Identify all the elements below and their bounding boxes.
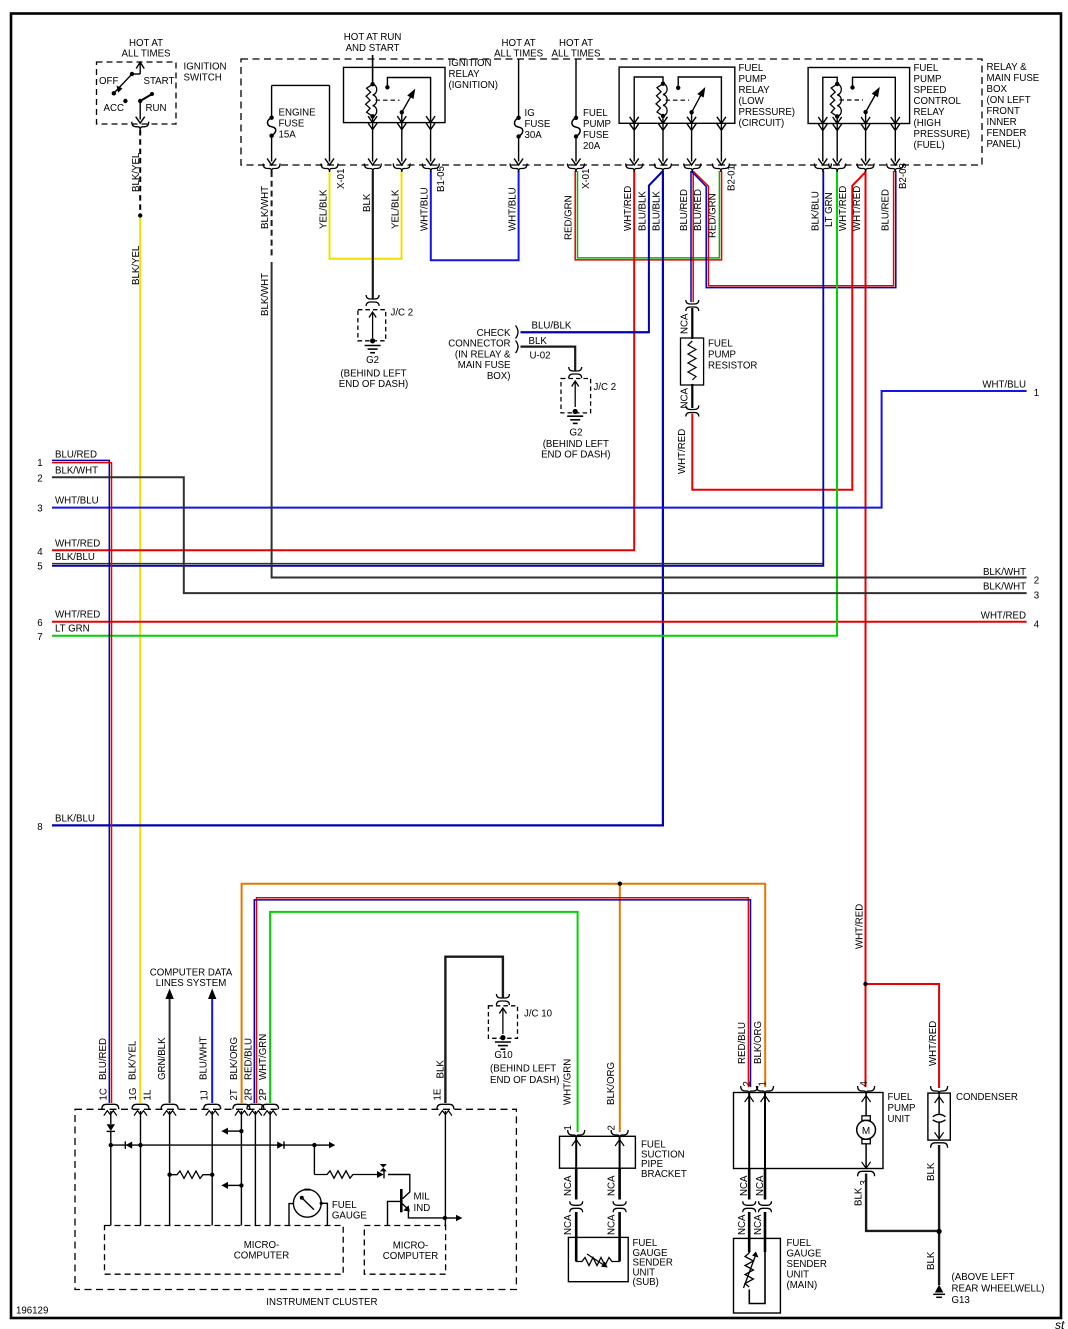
svg-text:UNIT: UNIT	[888, 1114, 911, 1125]
fuel gauge circle	[293, 1189, 321, 1217]
fuel gauge sender unit (sub) box	[568, 1237, 628, 1281]
speed control relay armature output wire	[865, 112, 867, 161]
speed control relay exit arrows	[818, 117, 827, 124]
IG fuse 30A	[518, 59, 520, 118]
speed control relay coil	[835, 82, 839, 86]
svg-text:BLK/BLU: BLK/BLU	[55, 814, 95, 825]
svg-text:RED/BLU: RED/BLU	[737, 1022, 748, 1064]
ground dot G2 (right)	[573, 409, 578, 414]
svg-text:NCA: NCA	[606, 1175, 617, 1196]
svg-text:WHT/BLU: WHT/BLU	[508, 187, 519, 231]
wire RED/GRN fuel pump fuse to fuel pump relay (green of pair)	[578, 171, 720, 258]
wire BLK/WHT engine fuse solid segment to right row 2	[272, 262, 1027, 578]
svg-text:4: 4	[859, 1081, 870, 1087]
svg-text:BLU/WHT: BLU/WHT	[199, 1036, 210, 1080]
ground symbol G2 (right)	[567, 415, 583, 417]
svg-text:(BEHIND LEFT: (BEHIND LEFT	[543, 439, 609, 450]
diode on 1C line	[107, 1124, 115, 1131]
wires NCA to sender main	[748, 1212, 751, 1252]
ground symbol G10	[495, 1041, 511, 1043]
wire BLU/RED left row 1 to cluster 1C (red of pair)	[52, 463, 112, 1103]
svg-text:1: 1	[758, 1081, 769, 1086]
svg-text:PRESSURE): PRESSURE)	[914, 129, 971, 140]
speed control relay dashed actuation link	[840, 99, 864, 101]
wire BLU/WHT computer data line to cluster 1J	[211, 998, 213, 1103]
check connector terminal symbols	[516, 326, 519, 339]
svg-text:CONNECTOR: CONNECTOR	[448, 339, 510, 350]
ignition relay armature output wire	[401, 112, 403, 161]
ignition relay dashed actuation link	[376, 99, 400, 101]
svg-text:BLU/BLK: BLU/BLK	[652, 191, 663, 231]
fuel gauge sender unit (main) box	[734, 1238, 781, 1313]
wire RED/BLU cluster 2R to fuel pump unit pin2 (red of pair)	[257, 898, 749, 1103]
svg-text:INSTRUMENT CLUSTER: INSTRUMENT CLUSTER	[266, 1297, 377, 1308]
svg-text:(MAIN): (MAIN)	[787, 1280, 818, 1291]
svg-text:ACC: ACC	[104, 103, 124, 114]
svg-text:NCA: NCA	[753, 1214, 764, 1235]
svg-text:7: 7	[37, 632, 42, 643]
svg-text:HOT AT RUN: HOT AT RUN	[344, 32, 402, 43]
fuel gauge mounting brackets	[289, 1204, 293, 1226]
svg-text:3: 3	[859, 1180, 870, 1185]
svg-text:2T: 2T	[229, 1089, 240, 1100]
fuel pump relay armature output wire	[691, 112, 693, 161]
fuel pump speed control relay box	[808, 68, 910, 124]
svg-text:BLK/WHT: BLK/WHT	[983, 582, 1026, 593]
svg-text:SENDER: SENDER	[787, 1259, 827, 1270]
fuel pump unit connector cups	[741, 1086, 758, 1095]
wire WHT/RED speed control relay pin3 to row6 / fuel pump unit pin4	[865, 171, 867, 1087]
wire BLK/YEL dashed from ignition switch	[139, 130, 141, 212]
svg-text:B2-03: B2-03	[898, 163, 909, 189]
svg-text:WHT/RED: WHT/RED	[855, 904, 866, 949]
signal direction arrow upper	[239, 1129, 243, 1133]
svg-text:BLU/RED: BLU/RED	[693, 189, 704, 231]
junction connector J/C 10 internal arrow	[502, 1008, 504, 1034]
condenser internal lead bottom	[938, 1122, 940, 1139]
wire BLK check connector to J/C 2	[521, 347, 576, 371]
svg-text:SWITCH: SWITCH	[184, 73, 222, 84]
svg-text:UNIT: UNIT	[787, 1270, 810, 1281]
svg-text:FENDER: FENDER	[987, 128, 1027, 139]
svg-text:NCA: NCA	[737, 1214, 748, 1235]
svg-text:START: START	[144, 76, 175, 87]
sender sub resistor element	[576, 1258, 619, 1266]
svg-text:NCA: NCA	[680, 388, 691, 409]
svg-text:G2: G2	[366, 355, 379, 366]
ignition switch ACC contact	[123, 99, 127, 103]
condenser internal lead top	[938, 1095, 940, 1114]
wire GRN/BLK computer data line to cluster	[169, 998, 171, 1103]
svg-text:NCA: NCA	[739, 1175, 750, 1196]
svg-text:PUMP: PUMP	[708, 350, 736, 361]
svg-text:BLK/YEL: BLK/YEL	[131, 152, 142, 192]
wire LT GRN speed control relay pin2 to left row 7	[52, 171, 837, 636]
svg-text:WHT/RED: WHT/RED	[928, 1021, 939, 1066]
svg-text:REAR WHEELWELL): REAR WHEELWELL)	[952, 1284, 1045, 1295]
svg-text:END OF DASH): END OF DASH)	[541, 450, 610, 461]
ground dot G10	[500, 1035, 505, 1040]
svg-text:(BEHIND LEFT: (BEHIND LEFT	[490, 1064, 556, 1075]
svg-text:PUMP: PUMP	[888, 1103, 916, 1114]
svg-text:PRESSURE): PRESSURE)	[739, 107, 796, 118]
fuel gauge top tick	[305, 1189, 311, 1191]
pump wires below box (NCA)	[748, 1169, 751, 1200]
wire WHT/RED fuel pump resistor to speed control relay pin3	[692, 172, 865, 490]
svg-text:FRONT: FRONT	[987, 106, 1020, 117]
wire BLU/BLK to check connector	[521, 331, 649, 333]
svg-text:LT GRN: LT GRN	[824, 192, 835, 227]
wire WHT/RED left row 6 to right row 4	[52, 621, 1027, 623]
svg-text:J/C 10: J/C 10	[524, 1009, 553, 1020]
fuel pump motor	[862, 1116, 870, 1121]
bracket NCA connectors	[570, 1201, 583, 1205]
fuel pump resistor element	[688, 341, 696, 380]
svg-text:RUN: RUN	[146, 103, 167, 114]
svg-text:G13: G13	[952, 1295, 970, 1306]
svg-text:WHT/RED: WHT/RED	[55, 610, 100, 621]
ignition switch output arrow to bottom	[139, 101, 141, 120]
svg-text:FUEL: FUEL	[332, 1200, 357, 1211]
svg-text:3: 3	[37, 504, 42, 515]
svg-text:END OF DASH): END OF DASH)	[339, 379, 408, 390]
junction connector J/C 2 (right) dashed box	[561, 379, 591, 413]
svg-text:LINES SYSTEM: LINES SYSTEM	[156, 978, 227, 989]
speed control relay coil output wire	[836, 116, 838, 161]
svg-text:(IN RELAY &: (IN RELAY &	[455, 349, 511, 360]
micro-computer box 2	[364, 1226, 445, 1275]
rail junction dot and output arrow	[312, 1143, 316, 1147]
wire BLK/ORG cluster 2T to fuel pump unit pin1 (orange bus)	[242, 884, 766, 1103]
svg-text:BLK/YEL: BLK/YEL	[128, 1040, 139, 1080]
transistor emitter	[402, 1204, 407, 1209]
svg-text:BRACKET: BRACKET	[641, 1169, 687, 1180]
svg-text:NCA: NCA	[680, 313, 691, 334]
svg-text:FUEL: FUEL	[739, 63, 764, 74]
svg-text:(IGNITION): (IGNITION)	[449, 80, 499, 91]
wire BLK/BLU speed control relay pin1 to left row 5 (blue of pair)	[52, 171, 823, 566]
svg-text:FUSE: FUSE	[525, 119, 551, 130]
fuel pump relay exit arrows	[630, 117, 639, 124]
svg-text:AND START: AND START	[346, 43, 400, 54]
svg-text:RELAY: RELAY	[449, 69, 481, 80]
svg-text:30A: 30A	[525, 130, 543, 141]
fuse box bottom connector cups	[263, 164, 280, 173]
svg-text:BLK/BLU: BLK/BLU	[55, 552, 95, 563]
svg-text:RELAY: RELAY	[914, 107, 946, 118]
MIL drive diode pair	[377, 1171, 384, 1178]
fuel pump relay armature	[689, 110, 693, 114]
svg-text:CONDENSER: CONDENSER	[956, 1092, 1018, 1103]
fuel pump relay box	[619, 67, 735, 123]
svg-text:1L: 1L	[143, 1089, 154, 1100]
svg-text:MAIN FUSE: MAIN FUSE	[458, 360, 511, 371]
transistor MIL base bar	[400, 1189, 403, 1212]
svg-text:BLU/RED: BLU/RED	[55, 450, 97, 461]
svg-text:BLK/BLU: BLK/BLU	[811, 191, 822, 231]
svg-text:BLK: BLK	[854, 1187, 865, 1206]
wire BLK/BLU speed control relay pin1 to left row 5 (black of pair)	[52, 563, 823, 565]
svg-text:CONTROL: CONTROL	[914, 96, 962, 107]
cluster internal vertical 1G	[140, 1111, 142, 1226]
svg-text:WHT/RED: WHT/RED	[677, 429, 688, 474]
svg-text:1J: 1J	[200, 1090, 211, 1100]
ignition switch RUN contact arm	[138, 99, 142, 103]
fuel pump resistor lead top	[691, 308, 693, 339]
ground G13	[935, 1285, 943, 1293]
svg-text:WHT/RED: WHT/RED	[852, 186, 863, 231]
svg-text:U-02: U-02	[530, 351, 551, 362]
svg-text:RED/BLU: RED/BLU	[244, 1038, 255, 1080]
svg-text:(CIRCUIT): (CIRCUIT)	[739, 118, 785, 129]
wire BLU/RED fuel pump relay pin3 to speed control relay pin4 (blue of pair)	[692, 171, 896, 288]
computer data line arrow (GRN/BLK)	[165, 989, 173, 1000]
svg-text:(BEHIND LEFT: (BEHIND LEFT	[340, 369, 406, 380]
ignition relay feed wire from HOT AT RUN AND START	[372, 55, 374, 84]
fuel pump resistor NCA connector (bottom)	[686, 406, 699, 410]
ground dot G2 (left)	[370, 338, 375, 343]
svg-text:6: 6	[37, 618, 42, 629]
ignition switch box	[97, 62, 177, 124]
svg-text:BLK/WHT: BLK/WHT	[983, 567, 1026, 578]
svg-text:COMPUTER: COMPUTER	[234, 1251, 289, 1262]
fuel suction pipe bracket box	[560, 1136, 636, 1168]
wire BLK pump pin3 to ground junction	[866, 1174, 939, 1231]
svg-text:20A: 20A	[583, 141, 601, 152]
svg-text:IGNITION: IGNITION	[449, 58, 492, 69]
svg-text:st: st	[1055, 1318, 1065, 1329]
fuel pump relay coil feed loop	[634, 77, 663, 162]
svg-text:BLU/RED: BLU/RED	[679, 189, 690, 231]
svg-text:1: 1	[37, 458, 42, 469]
svg-text:2: 2	[37, 474, 42, 485]
svg-text:(ON LEFT: (ON LEFT	[987, 95, 1031, 106]
bracket wires below box (NCA)	[575, 1168, 578, 1199]
svg-text:2: 2	[742, 1081, 753, 1086]
svg-text:BOX: BOX	[987, 84, 1008, 95]
svg-text:FUEL: FUEL	[583, 108, 608, 119]
svg-text:BLK/WHT: BLK/WHT	[260, 186, 271, 229]
junction connector J/C 10 entry cup	[496, 994, 509, 998]
diode on rail (right, pointing right)	[277, 1142, 283, 1149]
svg-text:(ABOVE LEFT: (ABOVE LEFT	[952, 1272, 1015, 1283]
svg-text:4: 4	[1034, 620, 1040, 631]
svg-text:BLU/RED: BLU/RED	[98, 1038, 109, 1080]
sender sub wiper arrow	[587, 1254, 605, 1266]
svg-text:IND: IND	[414, 1203, 431, 1214]
fuel gauge needle	[302, 1198, 314, 1209]
svg-text:B1-05: B1-05	[436, 166, 447, 192]
wire BLK/ORG branch to fuel suction pipe bracket pin2	[619, 884, 621, 1132]
svg-text:RED/GRN: RED/GRN	[708, 193, 719, 238]
fuel pump fuse 20A	[575, 59, 577, 118]
wire BLK/WHT left row 2 to right row 3 (grey)	[52, 477, 1027, 593]
wire YEL/BLK engine fuse to ignition relay (yellow U)	[330, 171, 402, 259]
svg-text:NCA: NCA	[606, 1214, 617, 1235]
svg-text:NCA: NCA	[563, 1214, 574, 1235]
svg-text:PUMP: PUMP	[739, 74, 767, 85]
svg-text:J/C 2: J/C 2	[594, 382, 617, 393]
svg-text:BLK: BLK	[926, 1251, 937, 1270]
svg-text:(FUEL): (FUEL)	[914, 140, 945, 151]
junction connector J/C 2 (right) internal arrow	[574, 381, 576, 407]
speed control relay coil feed loop	[823, 77, 837, 161]
svg-text:3: 3	[1034, 591, 1039, 602]
wire BLK/YEL ignition switch to cluster 1G (yellow)	[139, 217, 141, 1103]
svg-text:PUMP: PUMP	[583, 119, 611, 130]
svg-text:M: M	[862, 1126, 870, 1137]
ignition switch feed arrow to top	[132, 73, 140, 75]
svg-text:MAIN FUSE: MAIN FUSE	[987, 73, 1040, 84]
pump unit internal wires	[748, 1093, 750, 1169]
wire BLU/RED fuel pump relay pin3 to speed control relay pin4 (red of pair)	[694, 171, 894, 286]
cluster internal vertical 2P	[269, 1111, 271, 1226]
svg-text:ENGINE: ENGINE	[279, 108, 317, 119]
cluster internal vertical GRN/BLK	[169, 1111, 171, 1226]
wire BLK condenser to ground	[938, 1145, 940, 1285]
speed control relay fixed contact loop	[850, 85, 854, 89]
ignition relay box	[344, 67, 446, 122]
svg-text:RELAY: RELAY	[739, 85, 771, 96]
svg-text:4: 4	[37, 547, 43, 558]
transistor base wire from micro-computer	[388, 1201, 401, 1225]
wire WHT/BLU ignition relay to IG fuse (blue U)	[431, 171, 519, 260]
svg-text:WHT/GRN: WHT/GRN	[258, 1034, 269, 1080]
svg-text:IG: IG	[525, 108, 535, 119]
svg-text:WHT/BLU: WHT/BLU	[982, 380, 1026, 391]
wire BLK/WHT engine fuse dashed segment	[271, 171, 273, 258]
resistor between data lines	[167, 1173, 171, 1177]
ignition relay coil output wire	[372, 116, 374, 161]
svg-text:WHT/BLU: WHT/BLU	[55, 496, 99, 507]
wire BLU/RED fuel pump relay pin3 to fuel pump resistor (blue of pair)	[690, 171, 692, 302]
junction connector J/C 2 (left) internal arrow	[372, 312, 374, 338]
svg-text:BLK: BLK	[436, 1060, 447, 1079]
svg-text:GRN/BLK: GRN/BLK	[157, 1037, 168, 1080]
svg-text:YEL/BLK: YEL/BLK	[391, 189, 402, 229]
svg-text:WHT/RED: WHT/RED	[623, 186, 634, 231]
wire BLU/BLK fuel pump relay pin2 to check connector	[521, 172, 663, 333]
svg-text:1G: 1G	[128, 1088, 139, 1101]
junction connector J/C 2 (left) entry cup	[366, 295, 379, 299]
fuel pump relay dashed actuation link	[666, 99, 690, 101]
fuel suction pipe bracket connector cups	[568, 1130, 585, 1139]
diode on rail (left, pointing left)	[124, 1141, 126, 1148]
svg-text:2R: 2R	[244, 1088, 255, 1100]
signal direction arrow lower	[239, 1183, 243, 1187]
svg-text:YEL/BLK: YEL/BLK	[319, 189, 330, 229]
svg-text:FUSE: FUSE	[279, 119, 305, 130]
svg-text:CHECK: CHECK	[477, 328, 511, 339]
svg-text:WHT/GRN: WHT/GRN	[563, 1059, 574, 1105]
engine fuse 15A circuit	[271, 85, 273, 117]
wire WHT/BLU left row 3 to right row 1	[52, 391, 1027, 508]
svg-text:196129: 196129	[16, 1306, 48, 1317]
svg-text:COMPUTER: COMPUTER	[383, 1251, 438, 1262]
svg-text:RED/GRN: RED/GRN	[564, 195, 575, 240]
svg-text:BLK/ORG: BLK/ORG	[606, 1062, 617, 1105]
svg-text:RESISTOR: RESISTOR	[708, 361, 757, 372]
ignition relay fixed contact loop	[385, 85, 389, 89]
svg-text:2: 2	[606, 1125, 617, 1130]
svg-text:J/C 2: J/C 2	[391, 308, 414, 319]
wire BLU/BLK fuel pump relay pin2 to left row 8	[52, 171, 663, 825]
junction connector J/C 10 dashed box	[488, 1006, 517, 1039]
svg-text:FUEL: FUEL	[708, 339, 733, 350]
condenser plates	[933, 1114, 946, 1116]
fuel pump motor lead bottom	[865, 1144, 867, 1167]
svg-text:FUEL: FUEL	[914, 63, 939, 74]
svg-text:1: 1	[1034, 388, 1039, 399]
svg-text:BLK/ORG: BLK/ORG	[753, 1021, 764, 1064]
svg-text:G2: G2	[570, 428, 583, 439]
wire RED/GRN fuel pump fuse to fuel pump relay (red of pair)	[575, 171, 721, 260]
svg-text:BLU/BLK: BLU/BLK	[638, 191, 649, 231]
svg-text:BLU/RED: BLU/RED	[881, 189, 892, 231]
svg-text:RELAY &: RELAY &	[987, 62, 1028, 73]
ignition switch output connector cup	[132, 122, 149, 131]
sender main wiper arrow	[744, 1256, 756, 1289]
cluster connector cups	[102, 1104, 119, 1109]
svg-text:SPEED: SPEED	[914, 85, 947, 96]
svg-text:MICRO-: MICRO-	[393, 1241, 429, 1252]
wire BLU/RED left row 1 to cluster 1C (blue of pair)	[52, 460, 109, 1103]
cluster entry arrows	[104, 1111, 117, 1116]
svg-text:BLK/ORG: BLK/ORG	[229, 1037, 240, 1080]
relay and main fuse box (dashed)	[241, 59, 982, 165]
svg-text:IGNITION: IGNITION	[184, 62, 227, 73]
junction dot BLK/ORG bus	[618, 882, 622, 886]
cluster internal vertical 1J	[211, 1111, 213, 1226]
svg-text:B2-01: B2-01	[727, 165, 738, 191]
svg-text:15A: 15A	[279, 130, 297, 141]
fuel pump resistor box	[681, 338, 704, 385]
instrument cluster dashed box	[75, 1109, 516, 1289]
svg-text:WHT/BLU: WHT/BLU	[420, 187, 431, 231]
svg-text:FUSE: FUSE	[583, 130, 609, 141]
svg-text:NCA: NCA	[563, 1175, 574, 1196]
svg-text:BLK: BLK	[529, 336, 548, 347]
svg-text:G10: G10	[494, 1050, 513, 1061]
svg-text:BOX): BOX)	[487, 371, 511, 382]
fuel pump resistor NCA connector (top)	[686, 300, 699, 304]
svg-text:1E: 1E	[433, 1088, 444, 1100]
svg-text:(SUB): (SUB)	[633, 1277, 659, 1288]
fuel pump motor lead	[865, 1093, 867, 1116]
cluster internal vertical 1C	[110, 1111, 112, 1124]
svg-text:COMPUTER DATA: COMPUTER DATA	[150, 968, 233, 979]
svg-text:FUEL: FUEL	[888, 1092, 913, 1103]
svg-text:BLK/WHT: BLK/WHT	[260, 273, 271, 316]
svg-text:BLK/YEL: BLK/YEL	[131, 245, 142, 285]
MIL drive wire to transistor collector	[388, 1175, 410, 1199]
fuel pump relay coil	[661, 82, 665, 86]
fuel pump relay fixed contact loop	[676, 86, 680, 90]
ignition relay coil	[370, 82, 374, 86]
svg-text:WHT/RED: WHT/RED	[981, 611, 1026, 622]
MIL drive: drop from rail	[313, 1145, 315, 1174]
svg-text:ALL TIMES: ALL TIMES	[122, 48, 172, 59]
svg-text:PUMP: PUMP	[914, 74, 942, 85]
svg-text:ALL TIMES: ALL TIMES	[552, 48, 602, 59]
svg-text:8: 8	[37, 822, 42, 833]
svg-text:X-01: X-01	[336, 169, 347, 189]
micro-computer box 1	[105, 1226, 344, 1275]
ignition relay armature	[400, 110, 404, 114]
junction connector J/C 2 (left) dashed box	[358, 310, 386, 341]
condenser bottom connector cup	[931, 1143, 948, 1148]
pump pin 3 connector cup	[858, 1171, 875, 1176]
